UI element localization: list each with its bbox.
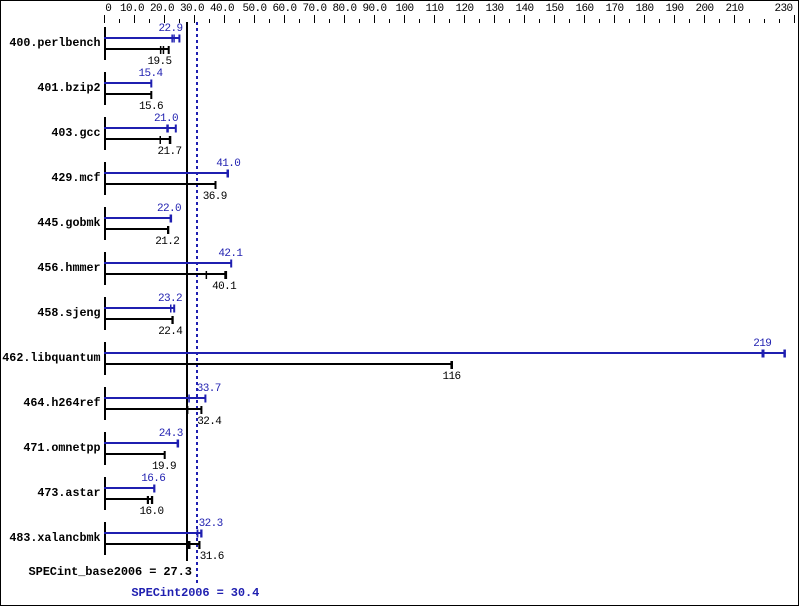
svg-text:483.xalancbmk: 483.xalancbmk <box>9 531 100 545</box>
svg-text:22.4: 22.4 <box>158 326 183 338</box>
svg-text:30.0: 30.0 <box>180 3 204 15</box>
dotted blue reference line SPECint2006 = 30.4 <box>196 22 198 583</box>
svg-text:10.0: 10.0 <box>120 3 144 15</box>
svg-text:429.mcf: 429.mcf <box>51 171 100 185</box>
svg-text:41.0: 41.0 <box>216 158 240 170</box>
svg-text:100: 100 <box>395 3 413 15</box>
svg-text:471.omnetpp: 471.omnetpp <box>23 441 100 455</box>
svg-text:210: 210 <box>725 3 743 15</box>
row 403.gcc <box>104 117 106 150</box>
svg-text:110: 110 <box>425 3 443 15</box>
svg-text:400.perlbench: 400.perlbench <box>9 36 100 50</box>
svg-text:456.hmmer: 456.hmmer <box>37 261 100 275</box>
svg-text:40.1: 40.1 <box>212 281 237 293</box>
svg-text:401.bzip2: 401.bzip2 <box>37 81 100 95</box>
svg-text:219: 219 <box>753 338 771 350</box>
svg-text:SPECint2006 = 30.4: SPECint2006 = 30.4 <box>131 586 259 600</box>
svg-text:SPECint_base2006 = 27.3: SPECint_base2006 = 27.3 <box>29 565 192 579</box>
svg-text:21.7: 21.7 <box>157 146 181 158</box>
svg-text:19.9: 19.9 <box>152 461 176 473</box>
svg-text:42.1: 42.1 <box>218 248 243 260</box>
svg-text:20.0: 20.0 <box>150 3 174 15</box>
svg-text:170: 170 <box>605 3 623 15</box>
svg-text:462.libquantum: 462.libquantum <box>2 351 100 365</box>
svg-text:36.9: 36.9 <box>203 191 227 203</box>
svg-text:15.6: 15.6 <box>139 101 163 113</box>
svg-text:190: 190 <box>665 3 683 15</box>
row 473.astar <box>104 477 106 510</box>
svg-text:230: 230 <box>774 3 792 15</box>
svg-text:80.0: 80.0 <box>332 3 356 15</box>
row 462.libquantum <box>104 342 106 375</box>
solid black reference line SPECint_base2006 = 27.3 <box>186 22 188 561</box>
svg-text:21.0: 21.0 <box>154 113 178 125</box>
row 464.h264ref <box>104 387 106 420</box>
svg-text:150: 150 <box>545 3 563 15</box>
svg-text:33.7: 33.7 <box>197 383 221 395</box>
svg-text:40.0: 40.0 <box>210 3 234 15</box>
svg-text:21.2: 21.2 <box>155 236 179 248</box>
svg-text:445.gobmk: 445.gobmk <box>37 216 100 230</box>
svg-text:90.0: 90.0 <box>362 3 386 15</box>
svg-text:50.0: 50.0 <box>242 3 266 15</box>
svg-text:0: 0 <box>105 3 111 15</box>
svg-text:70.0: 70.0 <box>302 3 326 15</box>
svg-text:32.3: 32.3 <box>199 518 223 530</box>
row 471.omnetpp <box>104 432 106 465</box>
row 429.mcf <box>104 162 106 195</box>
svg-text:200: 200 <box>695 3 713 15</box>
row 445.gobmk <box>104 207 106 240</box>
svg-text:31.6: 31.6 <box>200 551 224 563</box>
svg-text:23.2: 23.2 <box>158 293 182 305</box>
svg-text:180: 180 <box>635 3 653 15</box>
svg-text:19.5: 19.5 <box>147 56 171 68</box>
svg-text:473.astar: 473.astar <box>37 486 100 500</box>
svg-text:16.0: 16.0 <box>139 506 163 518</box>
svg-text:22.0: 22.0 <box>157 203 181 215</box>
svg-text:160: 160 <box>575 3 593 15</box>
svg-text:458.sjeng: 458.sjeng <box>37 306 100 320</box>
row 456.hmmer <box>104 252 106 285</box>
svg-text:16.6: 16.6 <box>141 473 165 485</box>
svg-text:24.3: 24.3 <box>159 428 183 440</box>
row 483.xalancbmk <box>104 522 106 555</box>
svg-text:116: 116 <box>442 371 460 383</box>
svg-text:60.0: 60.0 <box>272 3 296 15</box>
svg-text:130: 130 <box>485 3 503 15</box>
svg-text:464.h264ref: 464.h264ref <box>23 396 100 410</box>
svg-text:140: 140 <box>515 3 533 15</box>
svg-text:22.9: 22.9 <box>158 23 182 35</box>
row 400.perlbench <box>104 27 106 60</box>
svg-text:403.gcc: 403.gcc <box>51 126 100 140</box>
svg-text:15.4: 15.4 <box>138 68 163 80</box>
svg-text:32.4: 32.4 <box>197 416 222 428</box>
row 401.bzip2 <box>104 72 106 105</box>
svg-text:120: 120 <box>455 3 473 15</box>
top x axis <box>119 19 120 23</box>
row 458.sjeng <box>104 297 106 330</box>
